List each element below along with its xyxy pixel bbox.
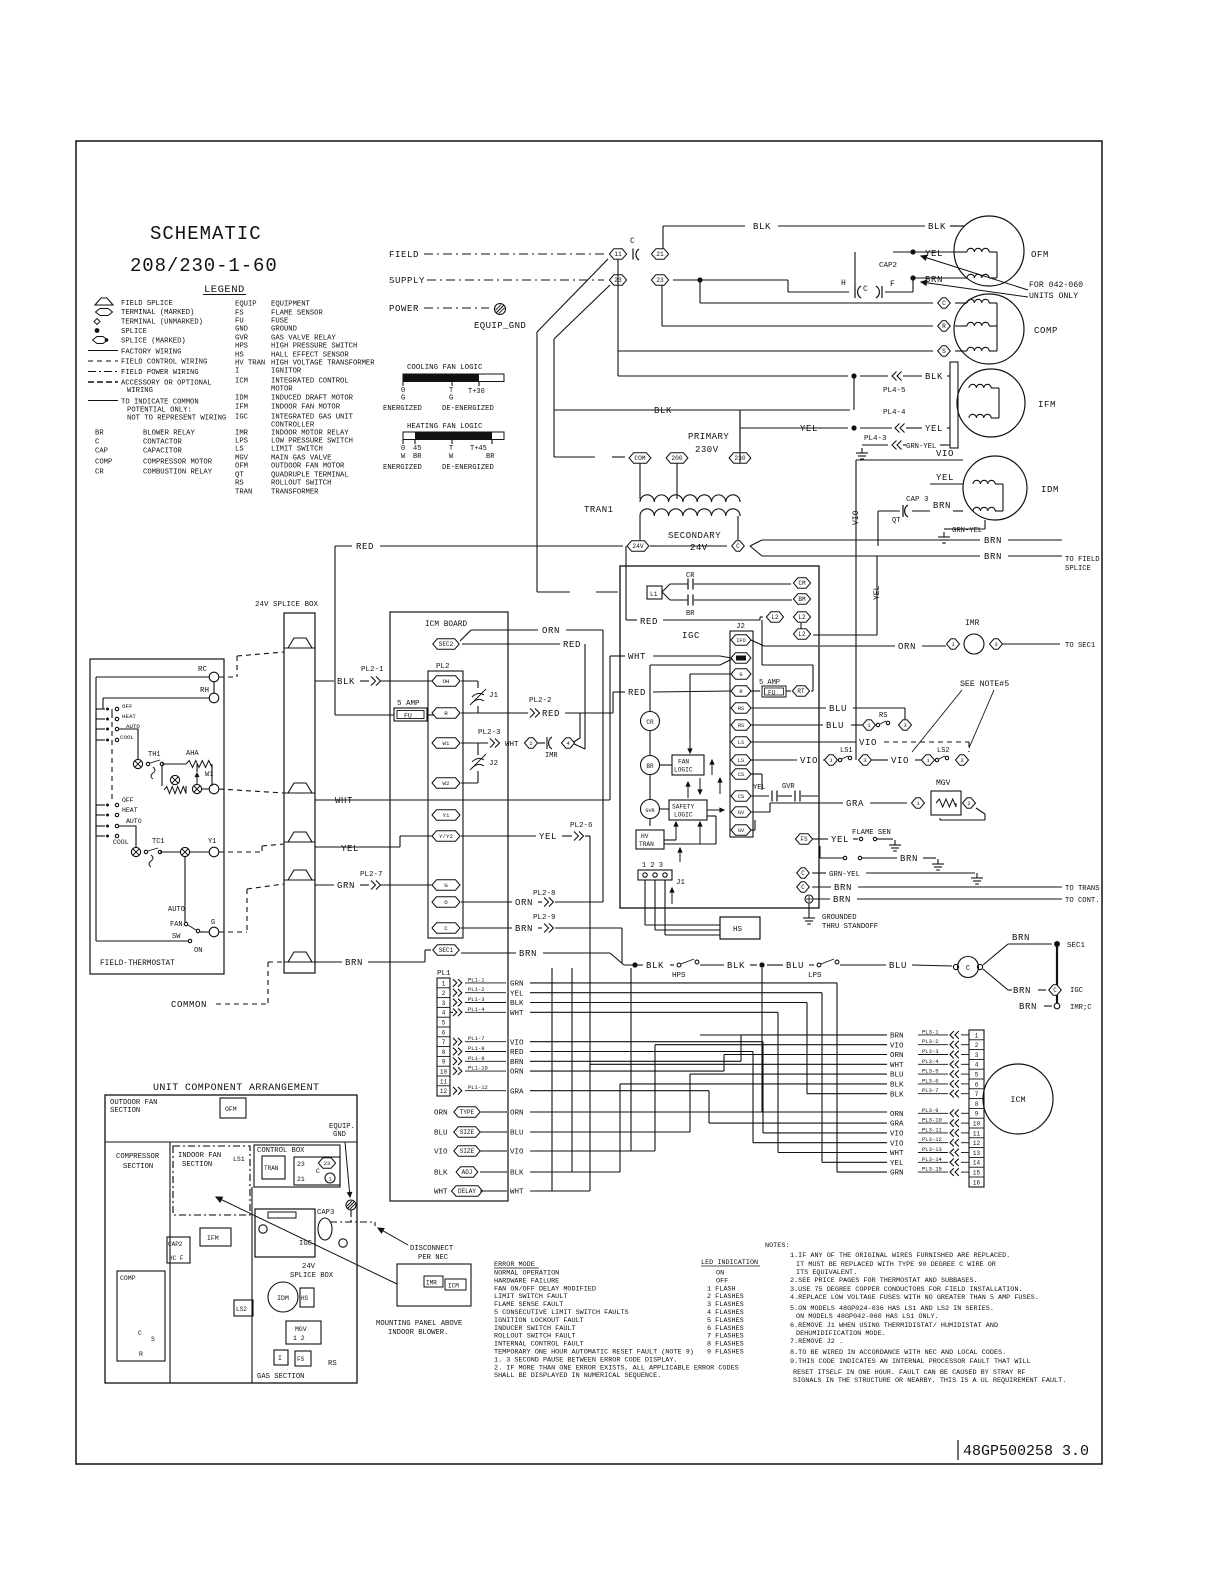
svg-text:IGC: IGC <box>1070 987 1084 995</box>
svg-text:CAPACITOR: CAPACITOR <box>143 448 183 456</box>
svg-text:WHT: WHT <box>335 796 353 806</box>
svg-text:7 FLASHES: 7 FLASHES <box>707 1333 744 1341</box>
svg-text:LPS: LPS <box>808 972 822 980</box>
svg-text:LS: LS <box>235 446 244 454</box>
svg-text:8: 8 <box>975 1101 979 1108</box>
svg-text:DE-ENERGIZED: DE-ENERGIZED <box>442 464 494 472</box>
svg-text:C: C <box>444 925 448 932</box>
svg-text:C: C <box>316 1168 320 1175</box>
svg-text:ORN: ORN <box>510 1069 524 1077</box>
svg-text:OUTDOOR FAN MOTOR: OUTDOOR FAN MOTOR <box>271 463 345 471</box>
svg-text:IMR: IMR <box>235 430 249 438</box>
svg-text:AHA: AHA <box>186 750 199 758</box>
svg-text:FS: FS <box>800 836 808 843</box>
svg-text:BLK: BLK <box>510 1000 524 1008</box>
svg-text:GRN: GRN <box>510 981 524 989</box>
svg-text:AUTO: AUTO <box>126 818 142 825</box>
svg-text:LS: LS <box>738 758 744 764</box>
svg-text:GAS SECTION: GAS SECTION <box>257 1373 304 1381</box>
svg-text:WIRING: WIRING <box>127 387 153 395</box>
svg-text:GROUND: GROUND <box>271 326 297 334</box>
svg-text:ROLLOUT SWITCH: ROLLOUT SWITCH <box>271 480 331 488</box>
svg-text:BR: BR <box>686 610 695 618</box>
svg-text:SPLICE: SPLICE <box>1065 565 1091 573</box>
svg-text:W1: W1 <box>443 740 450 747</box>
svg-text:8: 8 <box>442 1049 446 1056</box>
svg-text:GAS VALVE RELAY: GAS VALVE RELAY <box>271 335 336 343</box>
svg-text:H: H <box>841 279 846 288</box>
svg-text:2.SEE PRICE PAGES FOR THERMOST: 2.SEE PRICE PAGES FOR THERMOSTAT AND SUB… <box>790 1277 978 1285</box>
svg-text:VIO: VIO <box>891 756 909 766</box>
svg-text:C: C <box>138 1330 142 1337</box>
svg-text:FIELD: FIELD <box>389 250 419 260</box>
svg-text:PL1-12: PL1-12 <box>468 1084 488 1091</box>
svg-text:5 AMP: 5 AMP <box>397 700 420 708</box>
svg-text:45: 45 <box>413 445 421 453</box>
svg-text:TRAN: TRAN <box>639 841 654 848</box>
svg-text:TERMINAL (MARKED): TERMINAL (MARKED) <box>121 309 194 317</box>
svg-text:RED: RED <box>542 709 560 719</box>
svg-text:PL3-3: PL3-3 <box>922 1048 939 1055</box>
svg-text:11: 11 <box>973 1130 981 1137</box>
svg-text:0: 0 <box>401 445 405 453</box>
svg-text:21: 21 <box>297 1176 305 1183</box>
svg-text:SEC1: SEC1 <box>1067 942 1086 950</box>
svg-text:OFM: OFM <box>235 463 248 471</box>
svg-text:COOL: COOL <box>120 734 134 741</box>
svg-text:BRN: BRN <box>1013 986 1031 996</box>
svg-text:HPS: HPS <box>235 343 248 351</box>
svg-text:BLK: BLK <box>925 372 943 382</box>
svg-text:HEAT: HEAT <box>122 807 138 814</box>
svg-text:RS: RS <box>328 1360 337 1368</box>
svg-text:3: 3 <box>994 641 997 648</box>
svg-text:SCHEMATIC: SCHEMATIC <box>150 223 262 245</box>
svg-text:L2: L2 <box>771 614 779 621</box>
svg-text:5 FLASHES: 5 FLASHES <box>707 1317 744 1325</box>
svg-text:ICM: ICM <box>448 1283 459 1290</box>
svg-text:DE-ENERGIZED: DE-ENERGIZED <box>442 405 494 413</box>
svg-text:PL3-6: PL3-6 <box>922 1077 939 1084</box>
svg-text:PL1-7: PL1-7 <box>468 1035 485 1042</box>
svg-text:ON: ON <box>716 1270 724 1278</box>
svg-text:SECTION: SECTION <box>110 1107 140 1115</box>
svg-text:11: 11 <box>440 1078 448 1085</box>
svg-text:4.REPLACE LOW VOLTAGE FUSES WI: 4.REPLACE LOW VOLTAGE FUSES WITH NO GREA… <box>790 1294 1039 1302</box>
svg-text:RS: RS <box>879 712 887 720</box>
svg-text:BR: BR <box>413 453 422 461</box>
svg-text:10: 10 <box>440 1069 448 1076</box>
svg-text:G: G <box>401 395 405 403</box>
svg-text:IMR: IMR <box>545 752 558 760</box>
svg-text:RED: RED <box>640 617 658 627</box>
svg-text:RS: RS <box>738 723 744 729</box>
svg-text:HIGH PRESSURE SWITCH: HIGH PRESSURE SWITCH <box>271 343 357 351</box>
svg-text:BLK: BLK <box>727 961 745 971</box>
svg-text:230V: 230V <box>695 445 719 455</box>
svg-text:INDOOR BLOWER.: INDOOR BLOWER. <box>388 1329 448 1337</box>
svg-text:2: 2 <box>967 800 970 807</box>
svg-text:VIO: VIO <box>890 1140 904 1148</box>
svg-text:SECTION: SECTION <box>123 1163 153 1171</box>
svg-text:VIO: VIO <box>890 1131 904 1139</box>
svg-text:1.IF ANY OF THE ORIGINAL WIRES: 1.IF ANY OF THE ORIGINAL WIRES FURNISHED… <box>790 1252 1010 1260</box>
svg-text:R: R <box>139 1351 143 1358</box>
svg-text:BLK: BLK <box>434 1170 448 1178</box>
svg-text:PL3-7: PL3-7 <box>922 1087 939 1094</box>
svg-text:BLOWER RELAY: BLOWER RELAY <box>143 430 195 438</box>
svg-text:CONTROLLER: CONTROLLER <box>271 422 315 430</box>
svg-text:PL1-2: PL1-2 <box>468 986 485 993</box>
svg-text:HPS: HPS <box>672 972 686 980</box>
svg-text:9: 9 <box>442 1059 446 1066</box>
svg-text:QUADRUPLE TERMINAL: QUADRUPLE TERMINAL <box>271 472 349 480</box>
svg-text:BRN: BRN <box>834 883 852 893</box>
svg-text:3: 3 <box>903 722 906 729</box>
svg-text:GV: GV <box>738 810 745 816</box>
svg-text:TO FIELD: TO FIELD <box>1065 556 1100 564</box>
svg-text:24V: 24V <box>632 543 643 550</box>
svg-text:GRA: GRA <box>846 799 864 809</box>
svg-text:FIELD CONTROL WIRING: FIELD CONTROL WIRING <box>121 359 207 367</box>
svg-text:BRN: BRN <box>984 536 1002 546</box>
svg-text:S: S <box>151 1336 155 1343</box>
svg-text:THRU STANDOFF: THRU STANDOFF <box>822 923 878 931</box>
svg-text:MOUNTING PANEL ABOVE: MOUNTING PANEL ABOVE <box>376 1320 462 1328</box>
svg-text:GND: GND <box>235 326 248 334</box>
svg-text:FU: FU <box>235 318 244 326</box>
svg-text:L2: L2 <box>798 631 806 638</box>
svg-text:2: 2 <box>442 990 446 997</box>
svg-text:CR: CR <box>686 572 695 580</box>
svg-text:W2: W2 <box>443 780 450 787</box>
svg-text:NOTES:: NOTES: <box>765 1242 789 1250</box>
svg-text:BLU: BLU <box>434 1130 448 1138</box>
svg-text:11: 11 <box>614 251 622 258</box>
svg-text:RED: RED <box>510 1049 524 1057</box>
svg-text:T+30: T+30 <box>468 388 485 396</box>
svg-text:3.USE 75 DEGREE COPPER CONDUCT: 3.USE 75 DEGREE COPPER CONDUCTORS FOR FI… <box>790 1286 1023 1294</box>
svg-text:7: 7 <box>975 1091 979 1098</box>
svg-text:INTERNAL CONTROL FAULT: INTERNAL CONTROL FAULT <box>494 1341 584 1349</box>
svg-text:VIO: VIO <box>434 1149 448 1157</box>
svg-text:L1: L1 <box>650 591 658 598</box>
svg-text:BR: BR <box>646 763 654 770</box>
svg-text:GVR: GVR <box>782 783 795 791</box>
svg-text:FAN ON/OFF DELAY MODIFIED: FAN ON/OFF DELAY MODIFIED <box>494 1285 596 1293</box>
svg-text:INDUCER SWITCH FAULT: INDUCER SWITCH FAULT <box>494 1325 576 1333</box>
svg-text:YEL: YEL <box>831 835 849 845</box>
svg-text:SPLICE (MARKED): SPLICE (MARKED) <box>121 338 186 346</box>
svg-text:TRAN1: TRAN1 <box>584 505 614 515</box>
svg-text:OFF: OFF <box>122 797 134 804</box>
svg-text:PL3-12: PL3-12 <box>922 1136 942 1143</box>
svg-text:FLAME SENSOR: FLAME SENSOR <box>271 310 323 318</box>
svg-text:YEL: YEL <box>510 990 524 998</box>
svg-text:7.REMOVE J2 .: 7.REMOVE J2 . <box>790 1338 843 1346</box>
svg-text:L2: L2 <box>798 614 806 621</box>
svg-text:Y1: Y1 <box>443 812 450 819</box>
svg-text:J1: J1 <box>489 692 499 700</box>
svg-text:RH: RH <box>200 687 209 695</box>
svg-text:HV TRAN: HV TRAN <box>235 360 265 368</box>
svg-text:FACTORY WIRING: FACTORY WIRING <box>121 349 181 357</box>
svg-text:PL1-8: PL1-8 <box>468 1045 485 1052</box>
svg-text:6: 6 <box>975 1081 979 1088</box>
svg-text:23: 23 <box>324 1160 331 1167</box>
svg-text:1 FLASH: 1 FLASH <box>707 1285 736 1293</box>
svg-text:PRIMARY: PRIMARY <box>688 432 729 442</box>
svg-text:PL2-6: PL2-6 <box>570 822 593 830</box>
svg-text:MOTOR: MOTOR <box>271 386 293 394</box>
svg-text:COM: COM <box>634 455 645 462</box>
svg-text:BLU: BLU <box>889 961 907 971</box>
svg-text:Y/Y2: Y/Y2 <box>439 833 453 840</box>
svg-text:GRA: GRA <box>890 1121 904 1129</box>
svg-text:QT: QT <box>235 472 244 480</box>
svg-text:WHT: WHT <box>628 652 646 662</box>
svg-text:BRN: BRN <box>833 895 851 905</box>
svg-text:C: C <box>630 237 635 246</box>
svg-text:RS: RS <box>738 706 744 712</box>
svg-text:BLU: BLU <box>510 1130 524 1138</box>
svg-text:VIO: VIO <box>510 1149 524 1157</box>
svg-text:LOGIC: LOGIC <box>674 812 693 819</box>
svg-text:EQUIP.: EQUIP. <box>329 1123 355 1131</box>
svg-text:INTEGRATED GAS UNIT: INTEGRATED GAS UNIT <box>271 414 354 422</box>
svg-text:CAP3: CAP3 <box>317 1209 334 1217</box>
svg-text:LS: LS <box>738 740 744 746</box>
svg-text:PL3-4: PL3-4 <box>922 1058 939 1065</box>
svg-text:13: 13 <box>973 1150 981 1157</box>
svg-text:INDOOR MOTOR RELAY: INDOOR MOTOR RELAY <box>271 430 349 438</box>
svg-text:PL1: PL1 <box>437 970 451 978</box>
svg-text:OFF: OFF <box>122 703 133 710</box>
svg-text:BRN: BRN <box>984 552 1002 562</box>
svg-text:HV: HV <box>641 833 649 840</box>
svg-text:YEL: YEL <box>925 424 943 434</box>
svg-text:PL1-1: PL1-1 <box>468 976 485 983</box>
svg-text:HIGH VOLTAGE TRANSFORMER: HIGH VOLTAGE TRANSFORMER <box>271 360 375 368</box>
svg-text:PER NEC: PER NEC <box>418 1254 449 1262</box>
svg-text:BRN: BRN <box>1019 1002 1037 1012</box>
svg-text:PL3-14: PL3-14 <box>922 1156 943 1163</box>
svg-text:3: 3 <box>960 757 963 764</box>
svg-text:FU: FU <box>404 713 412 720</box>
svg-text:OUTDOOR FAN: OUTDOOR FAN <box>110 1099 157 1107</box>
svg-text:G: G <box>449 395 453 403</box>
svg-text:IDM: IDM <box>1041 485 1059 495</box>
svg-text:VIO: VIO <box>936 449 954 459</box>
svg-text:PL4-5: PL4-5 <box>883 387 906 395</box>
svg-text:SPLICE: SPLICE <box>121 328 147 336</box>
svg-text:IGNITOR: IGNITOR <box>271 368 302 376</box>
svg-text:FUSE: FUSE <box>271 318 288 326</box>
svg-text:YEL: YEL <box>753 784 766 792</box>
svg-text:LS1: LS1 <box>233 1156 245 1163</box>
svg-text:LPS: LPS <box>235 438 248 446</box>
svg-text:FAN: FAN <box>678 759 689 766</box>
svg-text:FS: FS <box>235 310 244 318</box>
svg-text:COMPRESSOR: COMPRESSOR <box>116 1153 160 1161</box>
svg-text:3: 3 <box>442 1000 446 1007</box>
svg-text:HEAT: HEAT <box>122 713 136 720</box>
svg-text:UNITS ONLY: UNITS ONLY <box>1029 292 1078 301</box>
svg-text:BLU: BLU <box>890 1072 904 1080</box>
svg-text:INDOOR FAN MOTOR: INDOOR FAN MOTOR <box>271 404 341 412</box>
svg-text:1. 3 SECOND PAUSE BETWEEN ERRO: 1. 3 SECOND PAUSE BETWEEN ERROR CODE DIS… <box>494 1356 678 1364</box>
svg-text:EQUIP_GND: EQUIP_GND <box>474 321 526 331</box>
svg-text:TRANSFORMER: TRANSFORMER <box>271 489 319 497</box>
svg-text:ORN: ORN <box>898 642 916 652</box>
svg-text:SIGNALS IN THE STRUCTURE OR NE: SIGNALS IN THE STRUCTURE OR NEARBY. THIS… <box>793 1377 1066 1385</box>
svg-text:FLAME SENSE FAULT: FLAME SENSE FAULT <box>494 1301 563 1309</box>
svg-text:GRN: GRN <box>890 1170 904 1178</box>
svg-text:208/230-1-60: 208/230-1-60 <box>130 255 278 277</box>
svg-text:SEC1: SEC1 <box>439 947 454 954</box>
svg-text:4: 4 <box>442 1010 446 1017</box>
svg-text:C: C <box>1053 987 1057 994</box>
svg-text:Y1: Y1 <box>208 838 216 846</box>
svg-text:8 FLASHES: 8 FLASHES <box>707 1341 744 1349</box>
svg-text:IFM: IFM <box>235 404 248 412</box>
svg-text:CAP 3: CAP 3 <box>906 496 929 504</box>
svg-text:J2: J2 <box>736 623 745 631</box>
svg-text:PL1-10: PL1-10 <box>468 1065 488 1072</box>
svg-text:23: 23 <box>656 277 664 284</box>
svg-text:HALL EFFECT SENSOR: HALL EFFECT SENSOR <box>271 352 349 360</box>
svg-text:YEL: YEL <box>890 1160 904 1168</box>
svg-text:6.REMOVE J1 WHEN USING THERMID: 6.REMOVE J1 WHEN USING THERMIDISTAT/ HUM… <box>790 1322 998 1330</box>
svg-text:HARDWARE FAILURE: HARDWARE FAILURE <box>494 1277 559 1285</box>
svg-text:IMR;C: IMR;C <box>1070 1004 1092 1012</box>
svg-text:GROUNDED: GROUNDED <box>822 914 857 922</box>
svg-text:MGV: MGV <box>235 455 249 463</box>
svg-text:C: C <box>736 543 740 550</box>
svg-text:MGV: MGV <box>295 1326 307 1333</box>
svg-text:IGC: IGC <box>299 1240 313 1248</box>
svg-text:BR: BR <box>486 453 495 461</box>
svg-text:8.TO BE WIRED IN ACCORDANCE WI: 8.TO BE WIRED IN ACCORDANCE WITH NEC AND… <box>790 1349 1006 1357</box>
svg-text:POTENTIAL ONLY:: POTENTIAL ONLY: <box>127 407 192 415</box>
svg-text:INDUCED DRAFT MOTOR: INDUCED DRAFT MOTOR <box>271 395 354 403</box>
svg-text:1 2: 1 2 <box>293 1335 305 1342</box>
svg-text:POWER: POWER <box>389 304 419 314</box>
svg-text:PL2-2: PL2-2 <box>529 697 552 705</box>
svg-text:FS: FS <box>297 1356 305 1363</box>
svg-text:ENERGIZED: ENERGIZED <box>383 464 422 472</box>
svg-text:ORN: ORN <box>542 626 560 636</box>
svg-text:24V: 24V <box>690 543 708 553</box>
svg-text:ADJ: ADJ <box>462 1169 473 1176</box>
svg-text:IDM: IDM <box>277 1295 289 1302</box>
svg-text:G: G <box>739 672 742 678</box>
svg-text:GVR: GVR <box>645 808 654 814</box>
svg-text:TEMPORARY ONE HOUR AUTOMATIC R: TEMPORARY ONE HOUR AUTOMATIC RESET FAULT… <box>494 1349 694 1357</box>
svg-text:CAP2: CAP2 <box>168 1241 183 1248</box>
svg-text:YEL: YEL <box>936 473 954 483</box>
svg-text:IFM: IFM <box>207 1235 219 1242</box>
svg-text:BLU: BLU <box>826 721 844 731</box>
svg-text:QT: QT <box>892 517 900 525</box>
svg-text:C: C <box>966 965 970 973</box>
svg-text:BRN: BRN <box>890 1033 904 1041</box>
svg-text:24V: 24V <box>302 1263 316 1271</box>
svg-text:BLU: BLU <box>829 704 847 714</box>
svg-text:COMP: COMP <box>120 1275 136 1282</box>
svg-text:5.ON MODELS 48GP024-036 HAS LS: 5.ON MODELS 48GP024-036 HAS LS1 AND LS2 … <box>790 1305 994 1313</box>
svg-text:YEL: YEL <box>925 249 943 259</box>
svg-text:PL2-7: PL2-7 <box>360 871 383 879</box>
svg-text:PL3-15: PL3-15 <box>922 1166 942 1173</box>
svg-text:DELAY: DELAY <box>458 1188 476 1195</box>
svg-text:SPLICE BOX: SPLICE BOX <box>290 1272 334 1280</box>
svg-text:PL3-2: PL3-2 <box>922 1038 939 1045</box>
svg-text:IGNITION LOCKOUT FAULT: IGNITION LOCKOUT FAULT <box>494 1317 584 1325</box>
svg-text:IFM: IFM <box>1038 400 1056 410</box>
svg-text:OFM: OFM <box>1031 250 1049 260</box>
svg-text:LOW PRESSURE SWITCH: LOW PRESSURE SWITCH <box>271 438 353 446</box>
svg-text:RED: RED <box>356 542 374 552</box>
svg-text:ORN: ORN <box>890 1052 904 1060</box>
svg-text:14: 14 <box>973 1160 981 1167</box>
svg-text:ORN: ORN <box>434 1110 448 1118</box>
svg-text:SECONDARY: SECONDARY <box>668 531 721 541</box>
svg-text:SHALL BE DISPLAYED IN NUMERICA: SHALL BE DISPLAYED IN NUMERICAL SEQUENCE… <box>494 1372 661 1380</box>
svg-text:RT: RT <box>797 688 805 695</box>
svg-text:SIZE: SIZE <box>460 1148 475 1155</box>
svg-text:COOL: COOL <box>113 839 129 846</box>
svg-text:PL3-9: PL3-9 <box>922 1107 939 1114</box>
svg-text:G: G <box>211 919 215 927</box>
svg-text:IMR: IMR <box>965 619 980 628</box>
svg-text:VIO: VIO <box>800 756 818 766</box>
svg-text:CS: CS <box>738 794 744 800</box>
svg-text:PL2-9: PL2-9 <box>533 914 556 922</box>
svg-text:CAP2: CAP2 <box>879 262 897 270</box>
svg-text:CM: CM <box>798 580 806 587</box>
svg-text:COMP: COMP <box>95 459 112 467</box>
svg-text:IMR: IMR <box>426 1280 437 1287</box>
svg-text:TO TRANS: TO TRANS <box>1065 885 1100 893</box>
svg-text:ICM BOARD: ICM BOARD <box>425 621 467 629</box>
svg-text:ON: ON <box>194 947 202 955</box>
svg-text:PL1-9: PL1-9 <box>468 1055 485 1062</box>
svg-text:VIO: VIO <box>890 1042 904 1050</box>
svg-text:BM: BM <box>798 596 806 603</box>
svg-text:INDOOR FAN: INDOOR FAN <box>178 1152 221 1160</box>
svg-text:LIMIT SWITCH FAULT: LIMIT SWITCH FAULT <box>494 1293 567 1301</box>
svg-text:I: I <box>235 368 239 376</box>
svg-text:BLK: BLK <box>510 1170 524 1178</box>
svg-text:RED: RED <box>628 688 646 698</box>
svg-text:TC1: TC1 <box>152 838 165 846</box>
svg-text:COOLING FAN LOGIC: COOLING FAN LOGIC <box>407 364 483 372</box>
svg-text:ON MODELS 48GP042-060 HAS LS1: ON MODELS 48GP042-060 HAS LS1 ONLY. <box>796 1313 939 1321</box>
svg-text:PL3-13: PL3-13 <box>922 1146 942 1153</box>
svg-text:10: 10 <box>973 1121 981 1128</box>
svg-text:BR: BR <box>95 430 104 438</box>
svg-text:TERMINAL (UNMARKED): TERMINAL (UNMARKED) <box>121 319 203 327</box>
svg-text:CAP: CAP <box>95 448 108 456</box>
svg-text:ICM: ICM <box>1010 1095 1025 1105</box>
svg-text:T: T <box>449 445 453 453</box>
svg-text:PL3-10: PL3-10 <box>922 1117 942 1124</box>
svg-text:COMMON: COMMON <box>171 1000 207 1010</box>
svg-text:FU: FU <box>768 690 776 697</box>
svg-text:COMPRESSOR MOTOR: COMPRESSOR MOTOR <box>143 459 213 467</box>
svg-text:GND: GND <box>333 1131 346 1139</box>
